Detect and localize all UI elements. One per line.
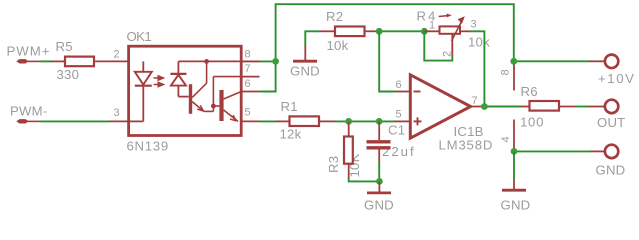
svg-text:PWM+: PWM+ <box>7 44 51 59</box>
port +10V <box>589 55 636 86</box>
wire R2 left to GND <box>305 31 320 46</box>
svg-text:2: 2 <box>114 49 120 61</box>
svg-text:10k: 10k <box>468 35 490 50</box>
svg-text:6: 6 <box>245 78 251 90</box>
svg-text:OUT: OUT <box>597 115 625 130</box>
port PWM- <box>10 104 47 124</box>
OK1 pin number labels <box>114 49 251 120</box>
port OUT <box>589 100 626 130</box>
ground symbol bottom middle <box>501 180 531 213</box>
wire PWM- net <box>41 120 111 122</box>
svg-text:GND: GND <box>501 198 531 213</box>
wire R6 to OUT <box>575 106 589 108</box>
svg-text:100: 100 <box>520 115 544 130</box>
wire pin5 to R1 <box>260 120 277 122</box>
wire output node <box>481 106 522 108</box>
svg-text:3: 3 <box>471 19 477 31</box>
junction node pin8 <box>272 58 279 65</box>
wire pin8 to junction <box>260 60 276 62</box>
wire R4 wiper <box>424 31 452 60</box>
svg-text:+10V: +10V <box>598 71 636 86</box>
OK1 light arrows <box>154 76 164 87</box>
OK1 pin 8 lead <box>241 60 260 62</box>
wire GND drop <box>513 151 515 180</box>
junction node output <box>481 103 488 110</box>
op-amp IC1B LM358D <box>395 75 494 153</box>
OK1 internal top rail to pin 8 <box>178 60 259 62</box>
OK1 transistor Q1 <box>189 61 214 113</box>
junction node +10V <box>510 58 517 65</box>
svg-text:OK1: OK1 <box>127 29 152 44</box>
OK1 pin 5 lead <box>241 120 260 122</box>
wire +10V <box>514 60 589 62</box>
svg-text:8: 8 <box>245 49 251 61</box>
OK1 photodiode <box>170 61 188 96</box>
svg-text:R3: R3 <box>326 156 341 173</box>
svg-text:8: 8 <box>500 69 512 75</box>
svg-text:C1: C1 <box>388 123 405 138</box>
OK1 pin 7 lead <box>241 76 260 78</box>
svg-text:5: 5 <box>245 107 251 119</box>
resistor R2 10k <box>320 9 377 53</box>
ground symbol below C1 <box>364 181 394 212</box>
svg-text:1: 1 <box>429 20 435 32</box>
wire R1 to node <box>334 120 395 122</box>
svg-text:7: 7 <box>245 63 251 75</box>
svg-text:12k: 12k <box>280 127 302 142</box>
svg-text:LM358D: LM358D <box>439 138 494 153</box>
OK1 Q1 emitter arrowhead <box>197 105 203 111</box>
optocoupler OK1 pin 3 lead <box>110 120 129 122</box>
op-amp power pin 4 stub <box>500 120 514 152</box>
svg-text:GND: GND <box>364 198 394 213</box>
resistor R6 100 <box>520 84 576 130</box>
resistor R3 10K (vertical) <box>326 121 362 178</box>
wire pin6 riser <box>260 61 276 91</box>
OK1 LED <box>129 61 152 121</box>
OK1 Q2 emitter arrowhead <box>230 115 236 121</box>
svg-text:R1: R1 <box>281 99 298 114</box>
svg-text:6: 6 <box>396 79 402 91</box>
junction node bottom <box>376 178 383 185</box>
svg-text:R5: R5 <box>56 39 73 54</box>
capacitor C1 22uf <box>367 121 416 162</box>
svg-text:6N139: 6N139 <box>127 139 169 154</box>
junction node R4 pin1 <box>421 28 428 35</box>
optocoupler OK1 box <box>127 29 242 154</box>
wire top rail <box>276 4 514 61</box>
op-amp power pin 8 stub <box>500 61 515 90</box>
svg-text:R2: R2 <box>326 9 343 24</box>
svg-text:GND: GND <box>290 64 320 79</box>
wire R3 bottom <box>349 178 380 182</box>
wire C1 bottom <box>378 162 380 182</box>
svg-text:R6: R6 <box>521 84 538 99</box>
OK1 internal junction node <box>204 59 209 64</box>
junction node GND <box>511 148 518 155</box>
svg-text:10k: 10k <box>327 38 349 53</box>
svg-text:4: 4 <box>500 136 512 142</box>
OK1 transistor Q2 <box>219 90 241 121</box>
svg-text:GND: GND <box>596 163 626 178</box>
trimmer R4 10k <box>417 9 491 58</box>
wire R4 pin3 down to output <box>470 31 485 106</box>
resistor R1 12k <box>276 99 335 142</box>
OK1 pin 6 lead <box>241 91 260 93</box>
junction node R3 top <box>345 118 352 125</box>
wire GND row <box>514 150 591 152</box>
wire R2 to R4 <box>377 30 425 32</box>
resistor R5 330 <box>51 39 129 82</box>
svg-text:5: 5 <box>396 109 402 121</box>
port GND right <box>591 145 626 178</box>
svg-text:PWM-: PWM- <box>10 104 47 119</box>
junction node feedback <box>376 28 383 35</box>
svg-text:330: 330 <box>57 67 80 82</box>
wire PWM+ net <box>41 60 53 62</box>
OK1 base junction node <box>211 104 216 109</box>
junction node C1 top <box>376 118 383 125</box>
wire feedback to op-amp minus input <box>379 31 395 91</box>
OK1 pin 7 internal wire <box>213 77 241 106</box>
svg-text:7: 7 <box>472 95 478 107</box>
svg-text:3: 3 <box>114 107 120 119</box>
ground symbol near R2 <box>290 46 320 79</box>
port PWM+ <box>7 44 51 64</box>
